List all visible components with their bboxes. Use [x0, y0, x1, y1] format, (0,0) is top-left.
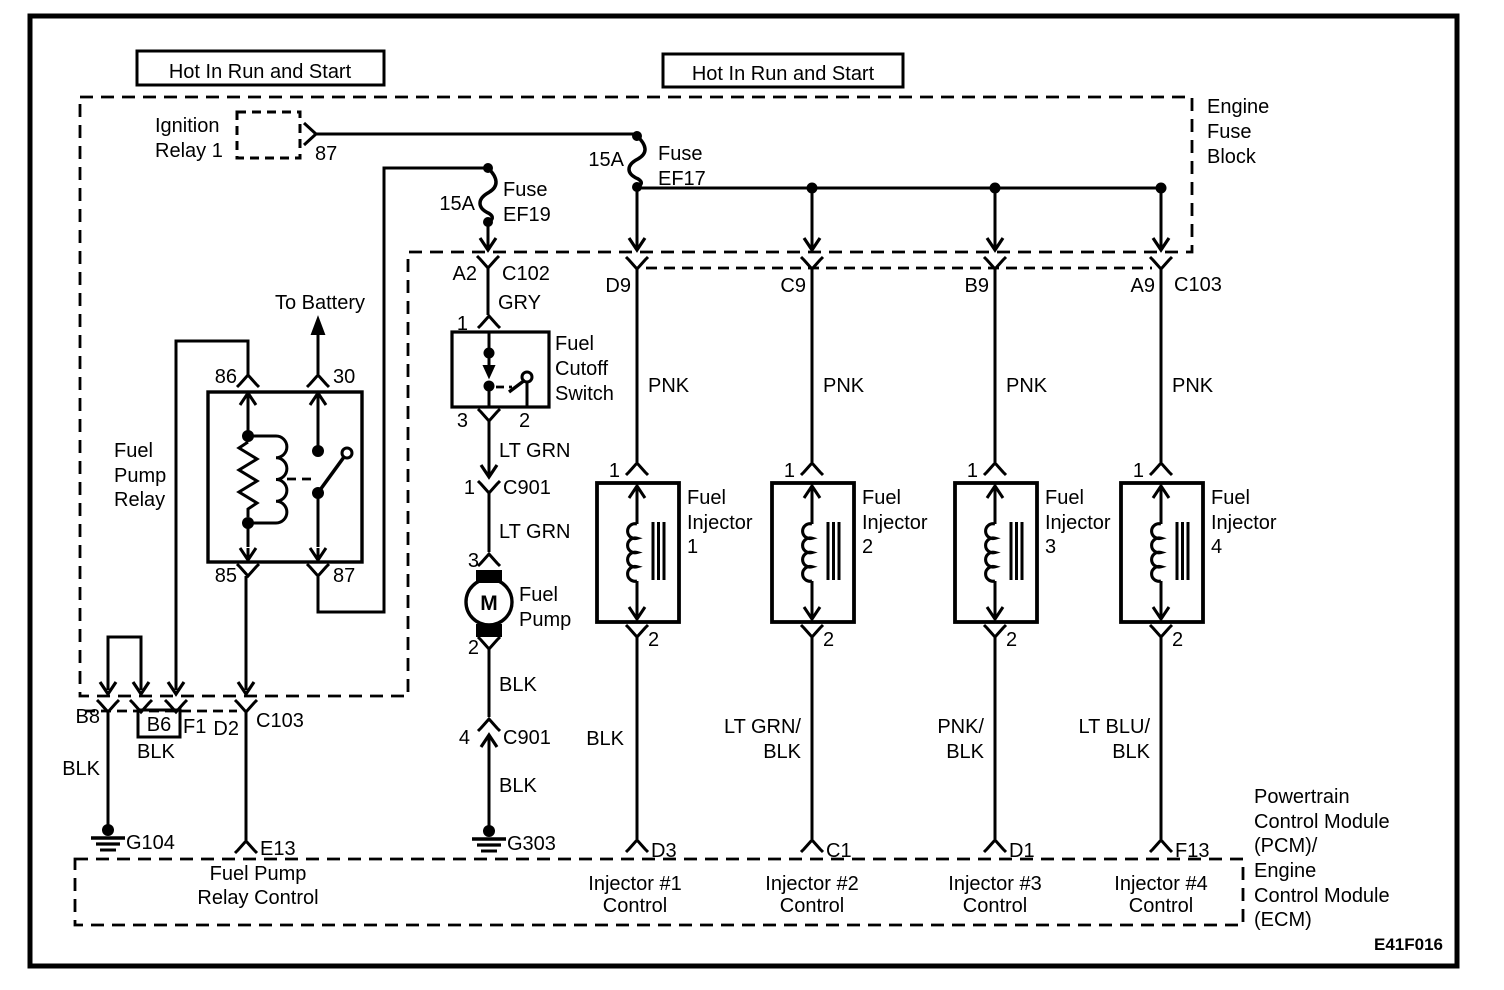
connector C103 pin B6 — [130, 700, 152, 712]
fuse EF17 15A — [632, 131, 642, 141]
fuel pump relay box — [208, 392, 362, 562]
fuel injector 3 pin 2 — [984, 625, 1006, 637]
svg-text:D2: D2 — [213, 718, 239, 740]
svg-text:Fuel: Fuel — [519, 584, 558, 606]
svg-text:Injector #3: Injector #3 — [948, 873, 1041, 895]
svg-text:15A: 15A — [439, 193, 475, 215]
wire fuse EF17 bus to connector pin B9 — [994, 188, 997, 249]
svg-text:BLK: BLK — [499, 775, 537, 797]
svg-text:B6: B6 — [147, 714, 171, 736]
svg-text:3: 3 — [468, 550, 479, 572]
svg-text:Fuel: Fuel — [114, 440, 153, 462]
wire BLK C901 to ground — [488, 755, 491, 827]
svg-text:BLK: BLK — [62, 758, 100, 780]
svg-text:15A: 15A — [588, 149, 624, 171]
wire fuse EF17 bus to connector pin A9 — [1160, 188, 1163, 249]
svg-text:2: 2 — [1006, 629, 1017, 651]
svg-text:LT GRN: LT GRN — [499, 440, 571, 462]
svg-text:A9: A9 — [1131, 275, 1155, 297]
junction node A9 feed — [1156, 183, 1167, 194]
svg-text:Fuel: Fuel — [1211, 487, 1250, 509]
wire BLK B8 to ground — [107, 712, 110, 825]
svg-text:F1: F1 — [183, 716, 206, 738]
svg-text:Control: Control — [963, 895, 1027, 917]
connector C103 pin B9 — [984, 257, 1006, 269]
label box: Hot In Run and Start (left) — [137, 51, 384, 85]
wire PNK to fuel injector 2 — [811, 269, 814, 462]
svg-text:Control Module: Control Module — [1254, 811, 1390, 833]
wire PNK to fuel injector 3 — [994, 269, 997, 462]
switch blade and contact — [522, 372, 532, 382]
svg-text:Hot In Run and Start: Hot In Run and Start — [692, 63, 875, 85]
svg-text:4: 4 — [1211, 536, 1222, 558]
svg-text:GRY: GRY — [498, 292, 541, 314]
svg-text:Control: Control — [780, 895, 844, 917]
relay coil branch — [247, 392, 250, 431]
svg-text:E13: E13 — [260, 838, 296, 860]
svg-text:Injector #2: Injector #2 — [765, 873, 858, 895]
connector C102 pin A2 — [477, 256, 499, 268]
connector C103 pin F1 — [165, 700, 187, 712]
svg-text:1: 1 — [464, 477, 475, 499]
fuel pump motor — [476, 570, 502, 583]
svg-text:Fuse: Fuse — [1207, 121, 1251, 143]
svg-text:PNK: PNK — [823, 375, 865, 397]
connector C103 pin D2 — [235, 700, 257, 712]
svg-text:Engine: Engine — [1254, 860, 1316, 882]
switch actuating dashes — [496, 386, 512, 389]
svg-text:Control: Control — [603, 895, 667, 917]
svg-text:Pump: Pump — [114, 465, 166, 487]
svg-text:(ECM): (ECM) — [1254, 909, 1312, 931]
svg-text:1: 1 — [784, 460, 795, 482]
wire ignition relay 87 to fuse EF17 — [316, 133, 637, 136]
svg-text:BLK: BLK — [1112, 741, 1150, 763]
fuel injector 2 — [772, 483, 854, 622]
svg-text:M: M — [480, 592, 498, 615]
fuse EF19 15A — [483, 163, 493, 173]
ground G303 — [483, 825, 495, 837]
svg-text:BLK: BLK — [946, 741, 984, 763]
svg-text:Control Module: Control Module — [1254, 885, 1390, 907]
connector C103 pin A9 — [1150, 257, 1172, 269]
wire fuel injector 1 to PCM — [636, 637, 639, 839]
wire LT GRN switch to C901 — [488, 421, 491, 474]
svg-text:Pump: Pump — [519, 609, 571, 631]
relay switch branch — [317, 392, 320, 446]
svg-text:Relay Control: Relay Control — [197, 887, 318, 909]
svg-text:PNK: PNK — [648, 375, 690, 397]
svg-text:1: 1 — [609, 460, 620, 482]
svg-text:Cutoff: Cutoff — [555, 358, 608, 380]
svg-text:Control: Control — [1129, 895, 1193, 917]
wire LT GRN C901 to fuel pump — [488, 493, 491, 552]
svg-text:C102: C102 — [502, 263, 550, 285]
svg-text:Fuse: Fuse — [503, 179, 547, 201]
svg-text:85: 85 — [215, 565, 237, 587]
ignition relay terminal 87 — [304, 123, 316, 145]
svg-text:B8: B8 — [76, 706, 100, 728]
wire fuse EF19 to connector C102 — [487, 225, 490, 248]
svg-text:Fuel: Fuel — [687, 487, 726, 509]
svg-text:Injector #1: Injector #1 — [588, 873, 681, 895]
wire BLK fuel pump to C901 — [488, 649, 491, 717]
svg-text:C9: C9 — [780, 275, 806, 297]
svg-text:Relay: Relay — [114, 489, 165, 511]
fuel injector 4 — [1121, 483, 1203, 622]
svg-text:2: 2 — [519, 410, 530, 432]
label box: Hot In Run and Start (right) — [663, 54, 903, 87]
svg-text:To Battery: To Battery — [275, 292, 365, 314]
wire fuel injector 4 to PCM — [1160, 637, 1163, 839]
svg-text:3: 3 — [457, 410, 468, 432]
svg-text:BLK: BLK — [586, 728, 624, 750]
svg-text:BLK: BLK — [763, 741, 801, 763]
connector C103 pin C9 — [801, 257, 823, 269]
svg-text:2: 2 — [823, 629, 834, 651]
PCM / ECM boundary — [75, 859, 1243, 925]
svg-text:86: 86 — [215, 366, 237, 388]
svg-text:87: 87 — [315, 143, 337, 165]
svg-text:Injector: Injector — [687, 512, 753, 534]
wire injector supply bus — [637, 187, 1161, 190]
svg-text:Relay 1: Relay 1 — [155, 140, 223, 162]
wire PNK to fuel injector 4 — [1160, 269, 1163, 462]
wire fuse EF17 bus to connector pin D9 — [636, 188, 639, 249]
svg-text:LT GRN/: LT GRN/ — [724, 716, 801, 738]
wire GRY to fuel cutoff switch — [487, 268, 490, 315]
svg-text:D9: D9 — [605, 275, 631, 297]
svg-text:30: 30 — [333, 366, 355, 388]
svg-text:2: 2 — [1172, 629, 1183, 651]
svg-text:G104: G104 — [126, 832, 175, 854]
svg-text:Fuel: Fuel — [555, 333, 594, 355]
connector C103 dashed line (top row) — [646, 267, 1152, 270]
connector C103 pin B8 — [97, 700, 119, 712]
svg-text:Injector #4: Injector #4 — [1114, 873, 1207, 895]
svg-text:Injector: Injector — [862, 512, 928, 534]
svg-text:E41F016: E41F016 — [1374, 935, 1443, 954]
svg-text:C901: C901 — [503, 477, 551, 499]
svg-text:EF19: EF19 — [503, 204, 551, 226]
svg-text:LT BLU/: LT BLU/ — [1078, 716, 1150, 738]
svg-text:Block: Block — [1207, 146, 1257, 168]
svg-text:PNK: PNK — [1006, 375, 1048, 397]
svg-text:1: 1 — [687, 536, 698, 558]
svg-text:Injector: Injector — [1211, 512, 1277, 534]
wire fuse EF17 bus to connector pin C9 — [811, 188, 814, 249]
svg-text:(PCM)/: (PCM)/ — [1254, 835, 1318, 857]
wire D2 to PCM E13 — [245, 712, 248, 840]
engine fuse block boundary — [80, 97, 1192, 696]
svg-text:Switch: Switch — [555, 383, 614, 405]
junction node B9 feed — [990, 183, 1001, 194]
svg-text:PNK/: PNK/ — [937, 716, 984, 738]
fuel injector 2 pin 2 — [801, 625, 823, 637]
svg-text:Fuel: Fuel — [1045, 487, 1084, 509]
svg-text:2: 2 — [468, 637, 479, 659]
svg-text:Injector: Injector — [1045, 512, 1111, 534]
svg-text:Fuel: Fuel — [862, 487, 901, 509]
svg-text:Hot In Run and Start: Hot In Run and Start — [169, 61, 352, 83]
svg-text:2: 2 — [648, 629, 659, 651]
relay actuation dashes — [287, 478, 317, 481]
ignition relay 1 — [237, 112, 300, 158]
fuel injector 4 pin 2 — [1150, 625, 1172, 637]
wire fuel injector 2 to PCM — [811, 637, 814, 839]
svg-text:1: 1 — [967, 460, 978, 482]
wire fuel pump relay 87 to fuse EF19 — [318, 168, 488, 612]
wire relay 85 to connector — [245, 576, 248, 690]
wire fuel injector 3 to PCM — [994, 637, 997, 839]
svg-text:G303: G303 — [507, 833, 556, 855]
fuel cutoff switch — [452, 332, 549, 407]
fuel injector 3 — [955, 483, 1037, 622]
svg-text:1: 1 — [1133, 460, 1144, 482]
connector C103 pin D9 — [626, 257, 648, 269]
svg-text:BLK: BLK — [499, 674, 537, 696]
wire ground jumper B8-B6 — [108, 637, 141, 690]
svg-text:87: 87 — [333, 565, 355, 587]
svg-text:Engine: Engine — [1207, 96, 1269, 118]
svg-text:C901: C901 — [503, 727, 551, 749]
ground G104 — [102, 824, 114, 836]
wire relay 86 control — [176, 341, 248, 690]
fuel injector 1 pin 2 — [626, 625, 648, 637]
svg-text:2: 2 — [862, 536, 873, 558]
svg-text:Powertrain: Powertrain — [1254, 786, 1350, 808]
svg-text:3: 3 — [1045, 536, 1056, 558]
svg-text:B9: B9 — [965, 275, 989, 297]
svg-text:4: 4 — [459, 727, 470, 749]
svg-text:Ignition: Ignition — [155, 115, 220, 137]
svg-text:C103: C103 — [1174, 274, 1222, 296]
svg-text:LT GRN: LT GRN — [499, 521, 571, 543]
connector C103 dashed line (lower row) — [85, 710, 237, 713]
svg-text:BLK: BLK — [137, 741, 175, 763]
svg-text:Fuse: Fuse — [658, 143, 702, 165]
svg-text:Fuel Pump: Fuel Pump — [210, 863, 307, 885]
svg-text:A2: A2 — [453, 263, 477, 285]
fuel injector 1 — [597, 483, 679, 622]
svg-text:PNK: PNK — [1172, 375, 1214, 397]
junction node C9 feed — [807, 183, 818, 194]
wire PNK to fuel injector 1 — [636, 269, 639, 462]
svg-text:C103: C103 — [256, 710, 304, 732]
